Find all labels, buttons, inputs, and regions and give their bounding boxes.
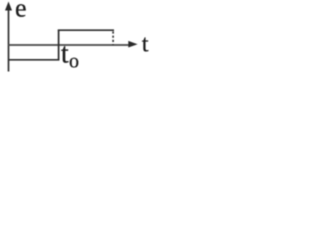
e axis (vertical)	[8, 7, 10, 72]
svg-text:o: o	[69, 50, 79, 72]
svg-text:t: t	[142, 30, 149, 57]
e axis arrowhead	[5, 2, 12, 11]
dotted drop line	[112, 31, 114, 45]
waveform high level (after t0)	[58, 29, 114, 31]
svg-text:t: t	[61, 39, 69, 70]
waveform low level (before t0)	[8, 59, 59, 61]
svg-text:e: e	[15, 0, 27, 23]
t axis (horizontal)	[8, 44, 130, 46]
step edge at t0	[58, 30, 60, 61]
t axis arrowhead	[128, 41, 137, 48]
